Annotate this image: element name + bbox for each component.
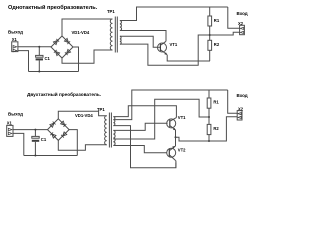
svg-text:R2: R2	[213, 126, 219, 131]
svg-text:Выход: Выход	[8, 30, 23, 35]
wire bridge right to bottom bus	[73, 47, 79, 72]
junction dot cap' top	[34, 129, 36, 131]
capacitor C1' plates	[32, 136, 39, 138]
resistor R1'	[207, 90, 211, 124]
svg-text:ТР1: ТР1	[97, 107, 105, 112]
TP1' primary winding	[105, 116, 107, 145]
wire top rail down to X2 top pin	[228, 7, 240, 28]
junction dot cap bottom	[38, 71, 40, 73]
diode VD1 (top-left edge)	[53, 39, 59, 45]
wire bridge2 bottom to primary2 bottom	[58, 140, 106, 150]
svg-text:VT1: VT1	[170, 42, 178, 47]
TP1 secondary bottom winding	[120, 36, 121, 44]
junction dot R2' bottom rail	[208, 140, 210, 142]
svg-text:Вход: Вход	[237, 93, 248, 98]
svg-text:Вход: Вход	[237, 11, 248, 16]
wire collector winding bottom to VT2' collector	[113, 126, 175, 168]
wire VT2' collector lower lead to bottom wire	[174, 160, 177, 167]
wire emitter junction to rail to X2' bottom pin	[176, 117, 238, 141]
svg-text:VD1-VD4: VD1-VD4	[72, 30, 90, 35]
capacitor C1 plates	[36, 55, 43, 57]
svg-text:R1: R1	[214, 18, 220, 23]
bottom bus circuit 2	[24, 155, 78, 157]
bridge diamond	[51, 36, 73, 58]
transistor VT2'	[167, 146, 176, 160]
wire VT1 emitter to emitter rail	[167, 55, 210, 61]
diode VD4' (bottom-right edge)	[61, 132, 67, 138]
wire X1' top pin to bridge left	[13, 129, 47, 131]
TP1 primary winding	[110, 19, 112, 50]
transistor VT1	[158, 41, 168, 55]
wire sec1 top lead to top rail	[120, 7, 228, 21]
resistor R2	[208, 40, 212, 61]
svg-text:С1: С1	[45, 56, 51, 61]
connector X2 body	[240, 25, 245, 34]
wire collector winding top to VT1' collector	[113, 106, 176, 118]
svg-text:R1: R1	[213, 100, 219, 105]
wire feedback winding bottom to VT2' base	[113, 146, 167, 153]
TP1 secondary top winding	[120, 21, 122, 31]
diode VD3 (bottom-left edge)	[54, 50, 60, 56]
wire X1 bottom pin down to bottom bus	[18, 51, 29, 72]
wire bottom bus	[29, 71, 79, 73]
junction dot cap top	[38, 46, 40, 48]
wire X1' bottom pin to bottom bus	[13, 133, 24, 155]
connector X1 body	[12, 42, 18, 52]
wire sec2 top lead to VT1 base	[120, 36, 160, 47]
connector X1' body	[7, 125, 13, 136]
connector X2' body	[237, 111, 242, 120]
diode VD3' (bottom-left edge)	[50, 132, 56, 138]
junction dot emitters	[175, 136, 177, 138]
diode VD2' (top-right edge)	[61, 121, 67, 127]
svg-text:R2: R2	[214, 42, 220, 47]
transistor VT1'	[167, 118, 177, 131]
capacitor C1' wire	[34, 130, 36, 156]
wire feedback winding top to VT1' base	[113, 123, 167, 130]
TP1 core	[115, 17, 117, 53]
svg-text:Х1: Х1	[12, 37, 18, 42]
junction dot divider 2	[208, 116, 210, 118]
wire X1 top pin to bridge left	[18, 46, 51, 48]
wire winding tap to top rail	[113, 90, 227, 120]
svg-text:Х1: Х1	[7, 121, 13, 126]
junction dot divider	[209, 34, 211, 36]
wire bridge top to transformer primary top	[62, 19, 113, 36]
wire bridge bottom to primary bottom	[62, 50, 113, 63]
diode VD1' (top-left edge)	[50, 122, 56, 128]
wire VT1' emitter down to VT2' emitter and rail	[175, 130, 177, 146]
TP1' feedback winding	[113, 130, 115, 145]
svg-text:Однотактный преобразователь.: Однотактный преобразователь.	[8, 4, 98, 11]
resistor R2'	[207, 124, 211, 141]
wire sec2 bottom lead to divider rail	[120, 32, 240, 65]
resistor R1	[208, 7, 212, 40]
svg-text:Двухтактный преобразователь.: Двухтактный преобразователь.	[27, 91, 101, 97]
diode VD2 (top-right edge)	[64, 38, 70, 44]
svg-text:С1: С1	[41, 137, 47, 142]
svg-text:Выход: Выход	[8, 112, 23, 117]
wire top rail 2 down to X2' top pin	[228, 90, 238, 113]
junction dot cap' bottom	[34, 155, 36, 157]
bridge 2 diamond	[48, 119, 70, 141]
svg-text:VD1-VD4: VD1-VD4	[75, 113, 93, 118]
wire bridge2 top to primary2 top	[58, 111, 106, 119]
svg-text:ТР1: ТР1	[107, 9, 115, 14]
wire bridge2 right to bottom bus	[69, 130, 77, 156]
diode VD4 (bottom-right edge)	[65, 49, 71, 55]
capacitor C1 wire	[38, 47, 40, 72]
svg-text:VT2: VT2	[178, 148, 186, 153]
wire sec1 bottom lead to VT1 collector	[120, 31, 166, 42]
svg-text:VT1: VT1	[178, 115, 186, 120]
TP1' collector winding	[113, 117, 115, 126]
wire feedback tap to divider junction	[113, 99, 209, 139]
TP1' core	[109, 113, 111, 148]
